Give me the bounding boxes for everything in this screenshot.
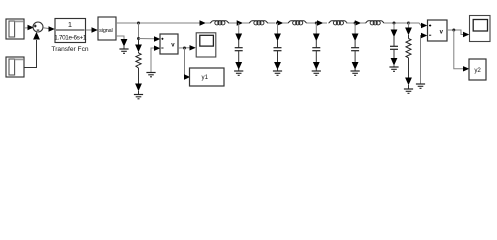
capacitor C5 shunt branch with ground: [389, 23, 398, 71]
transfer function block Transfer Fcn: [54, 19, 87, 43]
ground G1: [119, 49, 128, 53]
wire L2 to node N5: [268, 22, 276, 24]
to-workspace block y2: [469, 59, 486, 80]
wire node N1 down to R1 branch: [138, 23, 140, 40]
wire signal out2 to ground G1: [116, 36, 124, 39]
wire v1 out to node N3: [178, 47, 190, 49]
sum block S1: [33, 22, 43, 32]
wire node N10 down to y2: [454, 30, 463, 69]
wire main bus from signal to node N1: [116, 22, 200, 24]
voltage measurement block v2: [428, 20, 448, 41]
wire bus arrow into L1: [200, 20, 206, 25]
svg-text:signal: signal: [99, 28, 112, 34]
capacitor C2 shunt branch with ground: [273, 23, 282, 75]
to-workspace block y1: [190, 68, 225, 86]
node N4 junction: [237, 22, 240, 25]
capacitor C4 shunt branch with ground: [351, 23, 360, 75]
resistor R1 branch arrow: [138, 39, 140, 46]
step source block Step1: [6, 19, 24, 39]
inductor L2: [249, 21, 268, 25]
wire v2 out to node N10: [447, 30, 463, 35]
inductor L4: [329, 21, 348, 25]
wire Sum to Transfer Fcn: [43, 27, 48, 30]
voltage measurement block v1: [160, 34, 178, 54]
svg-text:y1: y1: [202, 74, 209, 81]
svg-text:Transfer Fcn: Transfer Fcn: [51, 46, 88, 53]
scope block Scope1: [196, 33, 216, 57]
wire L1 to node N4: [229, 22, 237, 24]
svg-text:1: 1: [68, 20, 72, 29]
wire L5 to node N8: [384, 22, 409, 24]
capacitor C3 shunt branch with ground: [312, 23, 321, 75]
node N2 junction: [137, 37, 140, 40]
node N6 junction: [315, 22, 318, 25]
node N8 junction: [393, 22, 396, 25]
wire Step1 to Sum: [24, 27, 29, 29]
wire Transfer Fcn to signal: [86, 29, 92, 31]
resistor R2 shunt branch with ground: [404, 23, 413, 93]
step source block Step2: [6, 57, 24, 77]
inductor L5: [365, 21, 384, 25]
wire node N9 to v2 plus input: [409, 23, 422, 26]
node N5 junction: [276, 22, 279, 25]
wire node N2 to v1 plus input: [139, 38, 155, 40]
svg-text:1.701e-6s+1: 1.701e-6s+1: [54, 34, 87, 41]
node N7 junction: [354, 22, 357, 25]
capacitor C1 shunt branch with ground: [234, 23, 243, 75]
node N10 junction: [452, 29, 455, 32]
inductor L3: [288, 21, 307, 25]
wire node N3 down to y1: [184, 48, 186, 77]
node N3 junction: [183, 47, 186, 50]
ground G3 and wire to v1 minus input: [146, 46, 160, 77]
node N9 junction: [407, 22, 410, 25]
wire L4 to node N7: [346, 22, 355, 24]
inductor L1: [210, 21, 229, 25]
scope block Scope2: [470, 16, 491, 42]
wire Step2 to Sum bottom: [24, 40, 37, 68]
subsystem block signal: [98, 17, 116, 40]
wire L3 to node N6: [307, 22, 317, 24]
resistor R1: [136, 53, 141, 68]
node N1 junction: [137, 22, 140, 25]
ground G4 and wire to v2 minus input: [416, 33, 427, 89]
svg-text:y2: y2: [474, 67, 481, 74]
ground G2: [134, 95, 143, 99]
